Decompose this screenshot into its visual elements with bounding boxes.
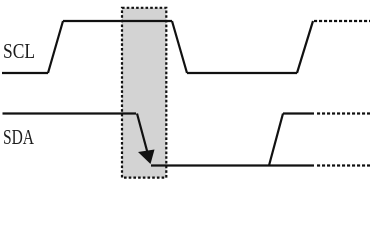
wire SDA low dotted continuation [317,164,370,166]
wire SCL falling edge [172,21,187,73]
wire SDA high segment (right) [283,112,314,114]
label SDA [3,125,35,149]
wire SCL high segment [63,20,172,22]
sampling window (gray dotted rectangle) [122,8,166,178]
svg-text:SDA: SDA [3,125,35,149]
wire SCL low segment (left) [2,72,48,74]
wire SDA low segment [151,164,314,166]
falling-edge arrow head [138,150,155,165]
wire SCL rising edge 2 [297,21,313,73]
wire SDA high dotted continuation [317,112,370,114]
svg-text:SCL: SCL [3,39,35,63]
wire SDA high segment (left) [3,112,137,114]
wire SCL rising edge 1 [48,21,63,73]
label SCL [3,39,35,63]
falling-edge arrow shaft [137,114,150,161]
wire SDA rising edge [269,114,283,166]
wire SCL dotted high continuation [314,20,370,22]
wire SCL low segment (right) [187,72,297,74]
